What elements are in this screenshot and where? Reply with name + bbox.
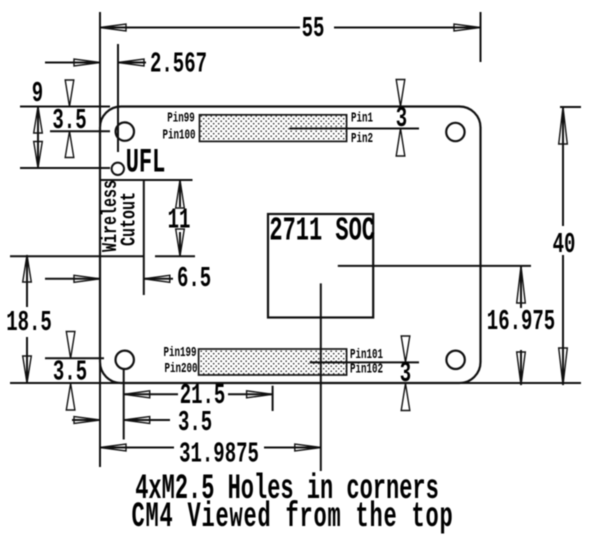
svg-text:3.5: 3.5 (178, 408, 212, 440)
dimension 3.5 top-left (65, 80, 74, 107)
extension line top edge left (20, 106, 110, 108)
dimension 31.9875 (100, 447, 174, 449)
hole bottom-left (116, 351, 134, 369)
svg-text:18.5: 18.5 (6, 308, 52, 340)
bottom connector J2 (199, 349, 347, 375)
svg-text:Pin1: Pin1 (351, 110, 373, 126)
svg-text:UFL: UFL (126, 143, 166, 182)
svg-text:Pin200: Pin200 (164, 360, 197, 376)
svg-text:11: 11 (168, 205, 191, 237)
SOC center leader horizontal (338, 265, 531, 267)
svg-text:40: 40 (553, 230, 576, 262)
extension line right edge top (480, 12, 482, 62)
board outline (100, 107, 481, 384)
extension line bottom hole level (45, 357, 104, 359)
svg-text:CM4 Viewed from the top: CM4 Viewed from the top (132, 497, 454, 537)
svg-text:31.9875: 31.9875 (179, 439, 259, 471)
svg-text:2.567: 2.567 (150, 49, 207, 81)
dimension 2.567 (45, 62, 100, 64)
svg-text:3.5: 3.5 (52, 106, 86, 138)
svg-text:Pin99: Pin99 (167, 110, 195, 126)
UFL connector circle (112, 163, 124, 175)
dimension 3.5 bottom-center (72, 419, 100, 421)
dimension 11 (179, 180, 181, 207)
SOC U1 (268, 214, 373, 318)
svg-text:6.5: 6.5 (177, 264, 211, 296)
dimension 6.5 (45, 278, 100, 280)
svg-text:55: 55 (302, 14, 325, 46)
extension line top hole level (50, 130, 110, 132)
extension line UFL center vertical (117, 44, 119, 152)
extension line bottom edge horizontal (10, 382, 581, 384)
dimension 16.975 (520, 266, 522, 308)
dimension 3 bottom (401, 336, 410, 362)
leader top pins (290, 128, 420, 130)
svg-text:3: 3 (400, 359, 411, 391)
dimension 40 (562, 107, 564, 226)
svg-text:16.975: 16.975 (487, 307, 555, 339)
svg-text:Cutout: Cutout (117, 192, 141, 246)
svg-text:9: 9 (32, 79, 43, 111)
hole top-right (446, 123, 464, 141)
dimension 55 (100, 27, 300, 29)
svg-text:2711 SOC: 2711 SOC (269, 214, 375, 250)
svg-text:Pin199: Pin199 (163, 344, 196, 360)
extension line left edge vertical (99, 12, 101, 467)
dimension 3 top (396, 80, 405, 107)
extension line bottom hole center vertical (123, 370, 125, 440)
svg-text:Pin100: Pin100 (162, 127, 195, 143)
extension line top right tick (560, 106, 581, 108)
SOC center leader vertical (320, 283, 322, 471)
svg-text:3.5: 3.5 (53, 357, 87, 389)
extension line UFL level (20, 167, 110, 169)
extension line 21.5 right tick (272, 386, 274, 411)
wireless cutout box (10, 180, 193, 295)
svg-text:Pin2: Pin2 (351, 130, 373, 146)
hole bottom-right (446, 351, 464, 369)
leader bottom pins (310, 361, 419, 363)
hole top-left (116, 122, 134, 140)
dimension 9 (37, 107, 39, 169)
dimension 3.5 bottom-left (66, 332, 75, 359)
top connector J1 (200, 115, 347, 142)
dimension 18.5 (26, 255, 28, 307)
svg-text:3: 3 (396, 104, 407, 136)
dimension 21.5 (124, 393, 178, 395)
